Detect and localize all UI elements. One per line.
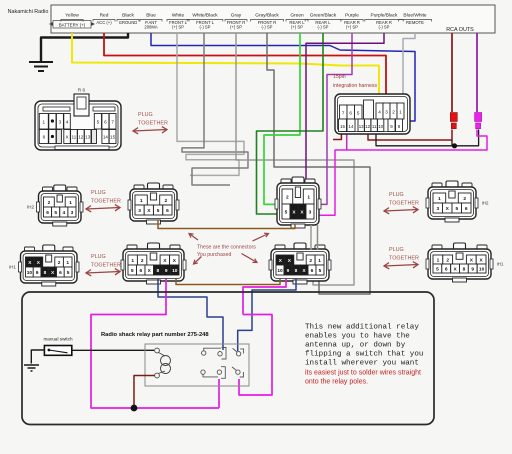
15pin integration harness U1 bbox=[335, 94, 410, 134]
wire blue P.ANT bbox=[151, 33, 415, 121]
svg-text:5: 5 bbox=[157, 208, 160, 214]
svg-text:3: 3 bbox=[59, 120, 62, 125]
svg-text:TOGETHER: TOGETHER bbox=[91, 199, 121, 205]
junction node bbox=[452, 143, 457, 148]
RCA plug red bbox=[450, 113, 457, 122]
svg-text:14: 14 bbox=[349, 124, 354, 129]
svg-text:2: 2 bbox=[463, 196, 466, 202]
arrow to IH1 mate bbox=[189, 234, 198, 241]
wire dark red from RCA to harness bbox=[368, 130, 452, 141]
svg-text:9: 9 bbox=[287, 268, 290, 274]
svg-text:5: 5 bbox=[285, 209, 288, 215]
svg-text:PLUG: PLUG bbox=[91, 190, 106, 196]
wire green/black rear L- bbox=[257, 33, 324, 214]
svg-text:8: 8 bbox=[156, 268, 159, 274]
svg-text:3: 3 bbox=[71, 210, 74, 216]
svg-text:5: 5 bbox=[54, 210, 57, 216]
arrow SE bbox=[242, 254, 258, 263]
svg-text:2: 2 bbox=[392, 110, 395, 115]
svg-text:9: 9 bbox=[471, 266, 474, 272]
svg-text:1: 1 bbox=[69, 200, 72, 206]
svg-text:flipping a switch that you: flipping a switch that you bbox=[305, 351, 423, 359]
svg-text:1: 1 bbox=[131, 258, 134, 264]
svg-text:enables you to have the: enables you to have the bbox=[305, 333, 410, 341]
svg-text:onto the relay poles.: onto the relay poles. bbox=[305, 379, 368, 386]
svg-text:2: 2 bbox=[141, 258, 144, 264]
svg-text:1: 1 bbox=[399, 110, 402, 115]
svg-text:(-) SP: (-) SP bbox=[318, 25, 329, 30]
wire purple/black rear R- bbox=[306, 33, 384, 186]
svg-text:TOGETHER: TOGETHER bbox=[138, 121, 168, 127]
svg-text:Gray/Black: Gray/Black bbox=[255, 13, 279, 19]
svg-text:2: 2 bbox=[446, 257, 449, 263]
wire RCA red out bbox=[451, 33, 453, 112]
RCA plug magenta bbox=[475, 113, 482, 122]
svg-text:Blue/White: Blue/White bbox=[403, 13, 427, 19]
svg-text:1: 1 bbox=[66, 260, 69, 266]
svg-text:R 6: R 6 bbox=[78, 88, 86, 93]
svg-text:2: 2 bbox=[58, 260, 61, 266]
svg-text:1: 1 bbox=[438, 196, 441, 202]
svg-text:ACC (+): ACC (+) bbox=[96, 20, 112, 25]
relay K1 bbox=[145, 344, 249, 386]
svg-text:Blue: Blue bbox=[146, 13, 156, 19]
svg-text:10: 10 bbox=[277, 268, 283, 274]
svg-text:Purple/Black: Purple/Black bbox=[371, 13, 399, 19]
svg-text:(-) SP: (-) SP bbox=[379, 25, 390, 30]
wire gray stub 2 bbox=[317, 225, 319, 250]
svg-text:Black: Black bbox=[122, 13, 134, 19]
svg-text:Green/Black: Green/Black bbox=[310, 13, 337, 19]
svg-text:Yellow: Yellow bbox=[65, 13, 79, 19]
svg-text:11: 11 bbox=[72, 135, 77, 140]
svg-text:Purple: Purple bbox=[345, 13, 359, 19]
svg-text:1: 1 bbox=[140, 198, 143, 204]
svg-text:200MA: 200MA bbox=[144, 25, 157, 30]
connector IH1 left bbox=[19, 245, 80, 286]
svg-text:REMOTE: REMOTE bbox=[406, 20, 424, 25]
svg-text:6: 6 bbox=[166, 208, 169, 214]
svg-text:15: 15 bbox=[110, 135, 115, 140]
svg-text:6: 6 bbox=[445, 266, 448, 272]
svg-text:6: 6 bbox=[104, 120, 107, 125]
svg-text:12: 12 bbox=[78, 135, 83, 140]
svg-text:Gray: Gray bbox=[231, 13, 242, 19]
svg-text:11: 11 bbox=[372, 124, 377, 129]
svg-text:1: 1 bbox=[307, 194, 310, 200]
wire blue IH1 to relay bbox=[158, 279, 223, 350]
svg-text:(+) SP: (+) SP bbox=[172, 25, 184, 30]
wire dark red pin15 stub bbox=[333, 133, 341, 140]
svg-text:PLUG: PLUG bbox=[91, 254, 106, 260]
wire brown IH2 to upper connector bbox=[158, 220, 295, 229]
svg-text:5: 5 bbox=[131, 268, 134, 274]
wire yellow battery bbox=[72, 33, 379, 104]
connector harness lower bbox=[269, 243, 331, 284]
svg-text:8: 8 bbox=[44, 270, 47, 276]
svg-text:RCA OUTS: RCA OUTS bbox=[446, 27, 474, 33]
svg-text:15: 15 bbox=[340, 124, 345, 129]
svg-text:integration harness: integration harness bbox=[333, 83, 378, 89]
svg-text:13: 13 bbox=[359, 124, 364, 129]
svg-text:10: 10 bbox=[27, 270, 33, 276]
wire magenta RCA to connector bbox=[312, 130, 487, 216]
svg-text:14: 14 bbox=[103, 135, 108, 140]
wire brown IH1 to lower connector bbox=[176, 279, 280, 285]
svg-text:3: 3 bbox=[138, 208, 141, 214]
connector R6 bbox=[35, 94, 121, 150]
svg-text:4: 4 bbox=[378, 110, 381, 115]
svg-text:(-) SP: (-) SP bbox=[262, 25, 273, 30]
svg-text:10: 10 bbox=[378, 124, 383, 129]
wire switch to relay coil bbox=[72, 349, 154, 351]
wire black ground bbox=[41, 33, 128, 61]
bottom section box bbox=[22, 292, 434, 425]
svg-text:install wherever you want: install wherever you want bbox=[305, 360, 419, 368]
wire black RCA shield bbox=[376, 130, 479, 146]
svg-text:5: 5 bbox=[319, 268, 322, 274]
svg-text:BATTERY (+): BATTERY (+) bbox=[59, 22, 86, 27]
svg-text:8: 8 bbox=[295, 268, 298, 274]
svg-text:2: 2 bbox=[48, 200, 51, 206]
wire dark red coil to junction bbox=[134, 376, 155, 407]
svg-text:6: 6 bbox=[349, 111, 352, 116]
svg-text:IH1: IH1 bbox=[9, 265, 16, 270]
svg-text:10: 10 bbox=[172, 268, 178, 274]
svg-text:6: 6 bbox=[59, 270, 62, 276]
svg-text:White: White bbox=[172, 13, 185, 19]
svg-text:(-) SP: (-) SP bbox=[200, 25, 211, 30]
wire RCA magenta out bbox=[476, 33, 478, 112]
connector IH2 mate bbox=[128, 183, 179, 224]
wire green rear L+ bbox=[264, 33, 300, 204]
connector IH1 right bbox=[426, 243, 493, 282]
wire magenta pin14 drop bbox=[346, 133, 348, 150]
wire switch to ground bbox=[31, 350, 44, 364]
svg-text:8: 8 bbox=[463, 266, 466, 272]
svg-text:(+) SP: (+) SP bbox=[346, 25, 358, 30]
svg-text:GROUND: GROUND bbox=[119, 20, 138, 25]
ground (battery) bbox=[29, 62, 53, 71]
svg-text:(+) SP: (+) SP bbox=[230, 25, 242, 30]
svg-text:Red: Red bbox=[100, 13, 109, 19]
svg-text:These are the connectors: These are the connectors bbox=[197, 245, 256, 251]
svg-text:9: 9 bbox=[36, 270, 39, 276]
svg-text:1: 1 bbox=[43, 120, 46, 125]
svg-text:5: 5 bbox=[357, 111, 360, 116]
svg-text:5: 5 bbox=[67, 270, 70, 276]
wire red ACC bbox=[104, 33, 386, 104]
svg-text:3: 3 bbox=[436, 206, 439, 212]
svg-text:IH2: IH2 bbox=[482, 201, 489, 206]
svg-text:2: 2 bbox=[309, 258, 312, 264]
wire gray front R+ bbox=[236, 33, 354, 285]
svg-text:IH2: IH2 bbox=[27, 205, 34, 210]
svg-text:6: 6 bbox=[311, 268, 314, 274]
svg-text:White/Black: White/Black bbox=[192, 13, 218, 19]
wire blue/white remote bbox=[403, 33, 415, 101]
svg-text:X: X bbox=[66, 135, 69, 140]
svg-text:(+) SP: (+) SP bbox=[291, 25, 303, 30]
wire magenta antenna loop bbox=[91, 279, 219, 408]
svg-text:15pin: 15pin bbox=[333, 74, 346, 80]
arrow to lower connector bbox=[253, 234, 269, 242]
svg-text:antenna up, or down by: antenna up, or down by bbox=[305, 342, 406, 350]
svg-text:Radio shack relay part number: Radio shack relay part number 275-248 bbox=[101, 332, 209, 338]
wire white/black front L- bbox=[182, 33, 248, 185]
svg-text:5: 5 bbox=[436, 266, 439, 272]
svg-text:1: 1 bbox=[437, 257, 440, 263]
svg-text:its easiest just to solder wir: its easiest just to solder wires straigh… bbox=[305, 370, 421, 377]
ground (switch) bbox=[24, 365, 39, 371]
svg-text:7: 7 bbox=[111, 120, 114, 125]
svg-text:5: 5 bbox=[97, 120, 100, 125]
svg-text:PLUG: PLUG bbox=[138, 112, 153, 118]
wire blue lower connector to relay bbox=[238, 279, 296, 351]
svg-text:PLUG: PLUG bbox=[389, 192, 404, 198]
svg-text:10: 10 bbox=[479, 266, 485, 272]
svg-text:You purchased: You purchased bbox=[197, 252, 232, 258]
wire magenta from lower connector bbox=[243, 279, 286, 315]
wire black stub bbox=[451, 140, 453, 146]
svg-text:3: 3 bbox=[309, 209, 312, 215]
wire white front L+ bbox=[177, 33, 244, 175]
svg-text:2: 2 bbox=[164, 198, 167, 204]
svg-text:13: 13 bbox=[85, 135, 90, 140]
arrow SW bbox=[194, 257, 202, 265]
svg-text:12: 12 bbox=[365, 124, 370, 129]
connector harness upper bbox=[275, 177, 321, 228]
wire purple rear R+ bbox=[312, 33, 352, 204]
junction node relay bbox=[131, 405, 138, 412]
svg-text:TOGETHER: TOGETHER bbox=[389, 256, 419, 262]
svg-text:6: 6 bbox=[465, 206, 468, 212]
connector IH2 right bbox=[426, 181, 478, 222]
svg-text:4: 4 bbox=[66, 120, 69, 125]
svg-text:TOGETHER: TOGETHER bbox=[91, 263, 121, 269]
svg-text:1: 1 bbox=[318, 258, 321, 264]
svg-text:4: 4 bbox=[62, 210, 65, 216]
connector IH2 left bbox=[37, 185, 84, 226]
svg-text:6: 6 bbox=[139, 268, 142, 274]
svg-text:3: 3 bbox=[385, 110, 388, 115]
svg-text:This new additional relay: This new additional relay bbox=[305, 324, 419, 332]
svg-text:9: 9 bbox=[165, 268, 168, 274]
wire gray stub 1 bbox=[310, 225, 312, 250]
radio pinout box bbox=[51, 5, 495, 33]
wire magenta relay common drop bbox=[218, 379, 220, 408]
svg-text:5: 5 bbox=[455, 206, 458, 212]
svg-text:6: 6 bbox=[46, 210, 49, 216]
connector IH1 mate bbox=[121, 243, 186, 284]
svg-text:7: 7 bbox=[342, 111, 345, 116]
svg-text:Green: Green bbox=[290, 13, 304, 19]
svg-text:Nakamichi Radio: Nakamichi Radio bbox=[8, 9, 49, 15]
svg-text:TOGETHER: TOGETHER bbox=[389, 201, 419, 207]
svg-text:manual switch: manual switch bbox=[43, 337, 73, 342]
svg-text:IH1: IH1 bbox=[497, 262, 504, 267]
svg-text:PLUG: PLUG bbox=[389, 247, 404, 253]
svg-text:2: 2 bbox=[286, 194, 289, 200]
wire magenta to relay NO contact bbox=[239, 315, 272, 396]
wire gray/black front R- bbox=[267, 33, 370, 294]
